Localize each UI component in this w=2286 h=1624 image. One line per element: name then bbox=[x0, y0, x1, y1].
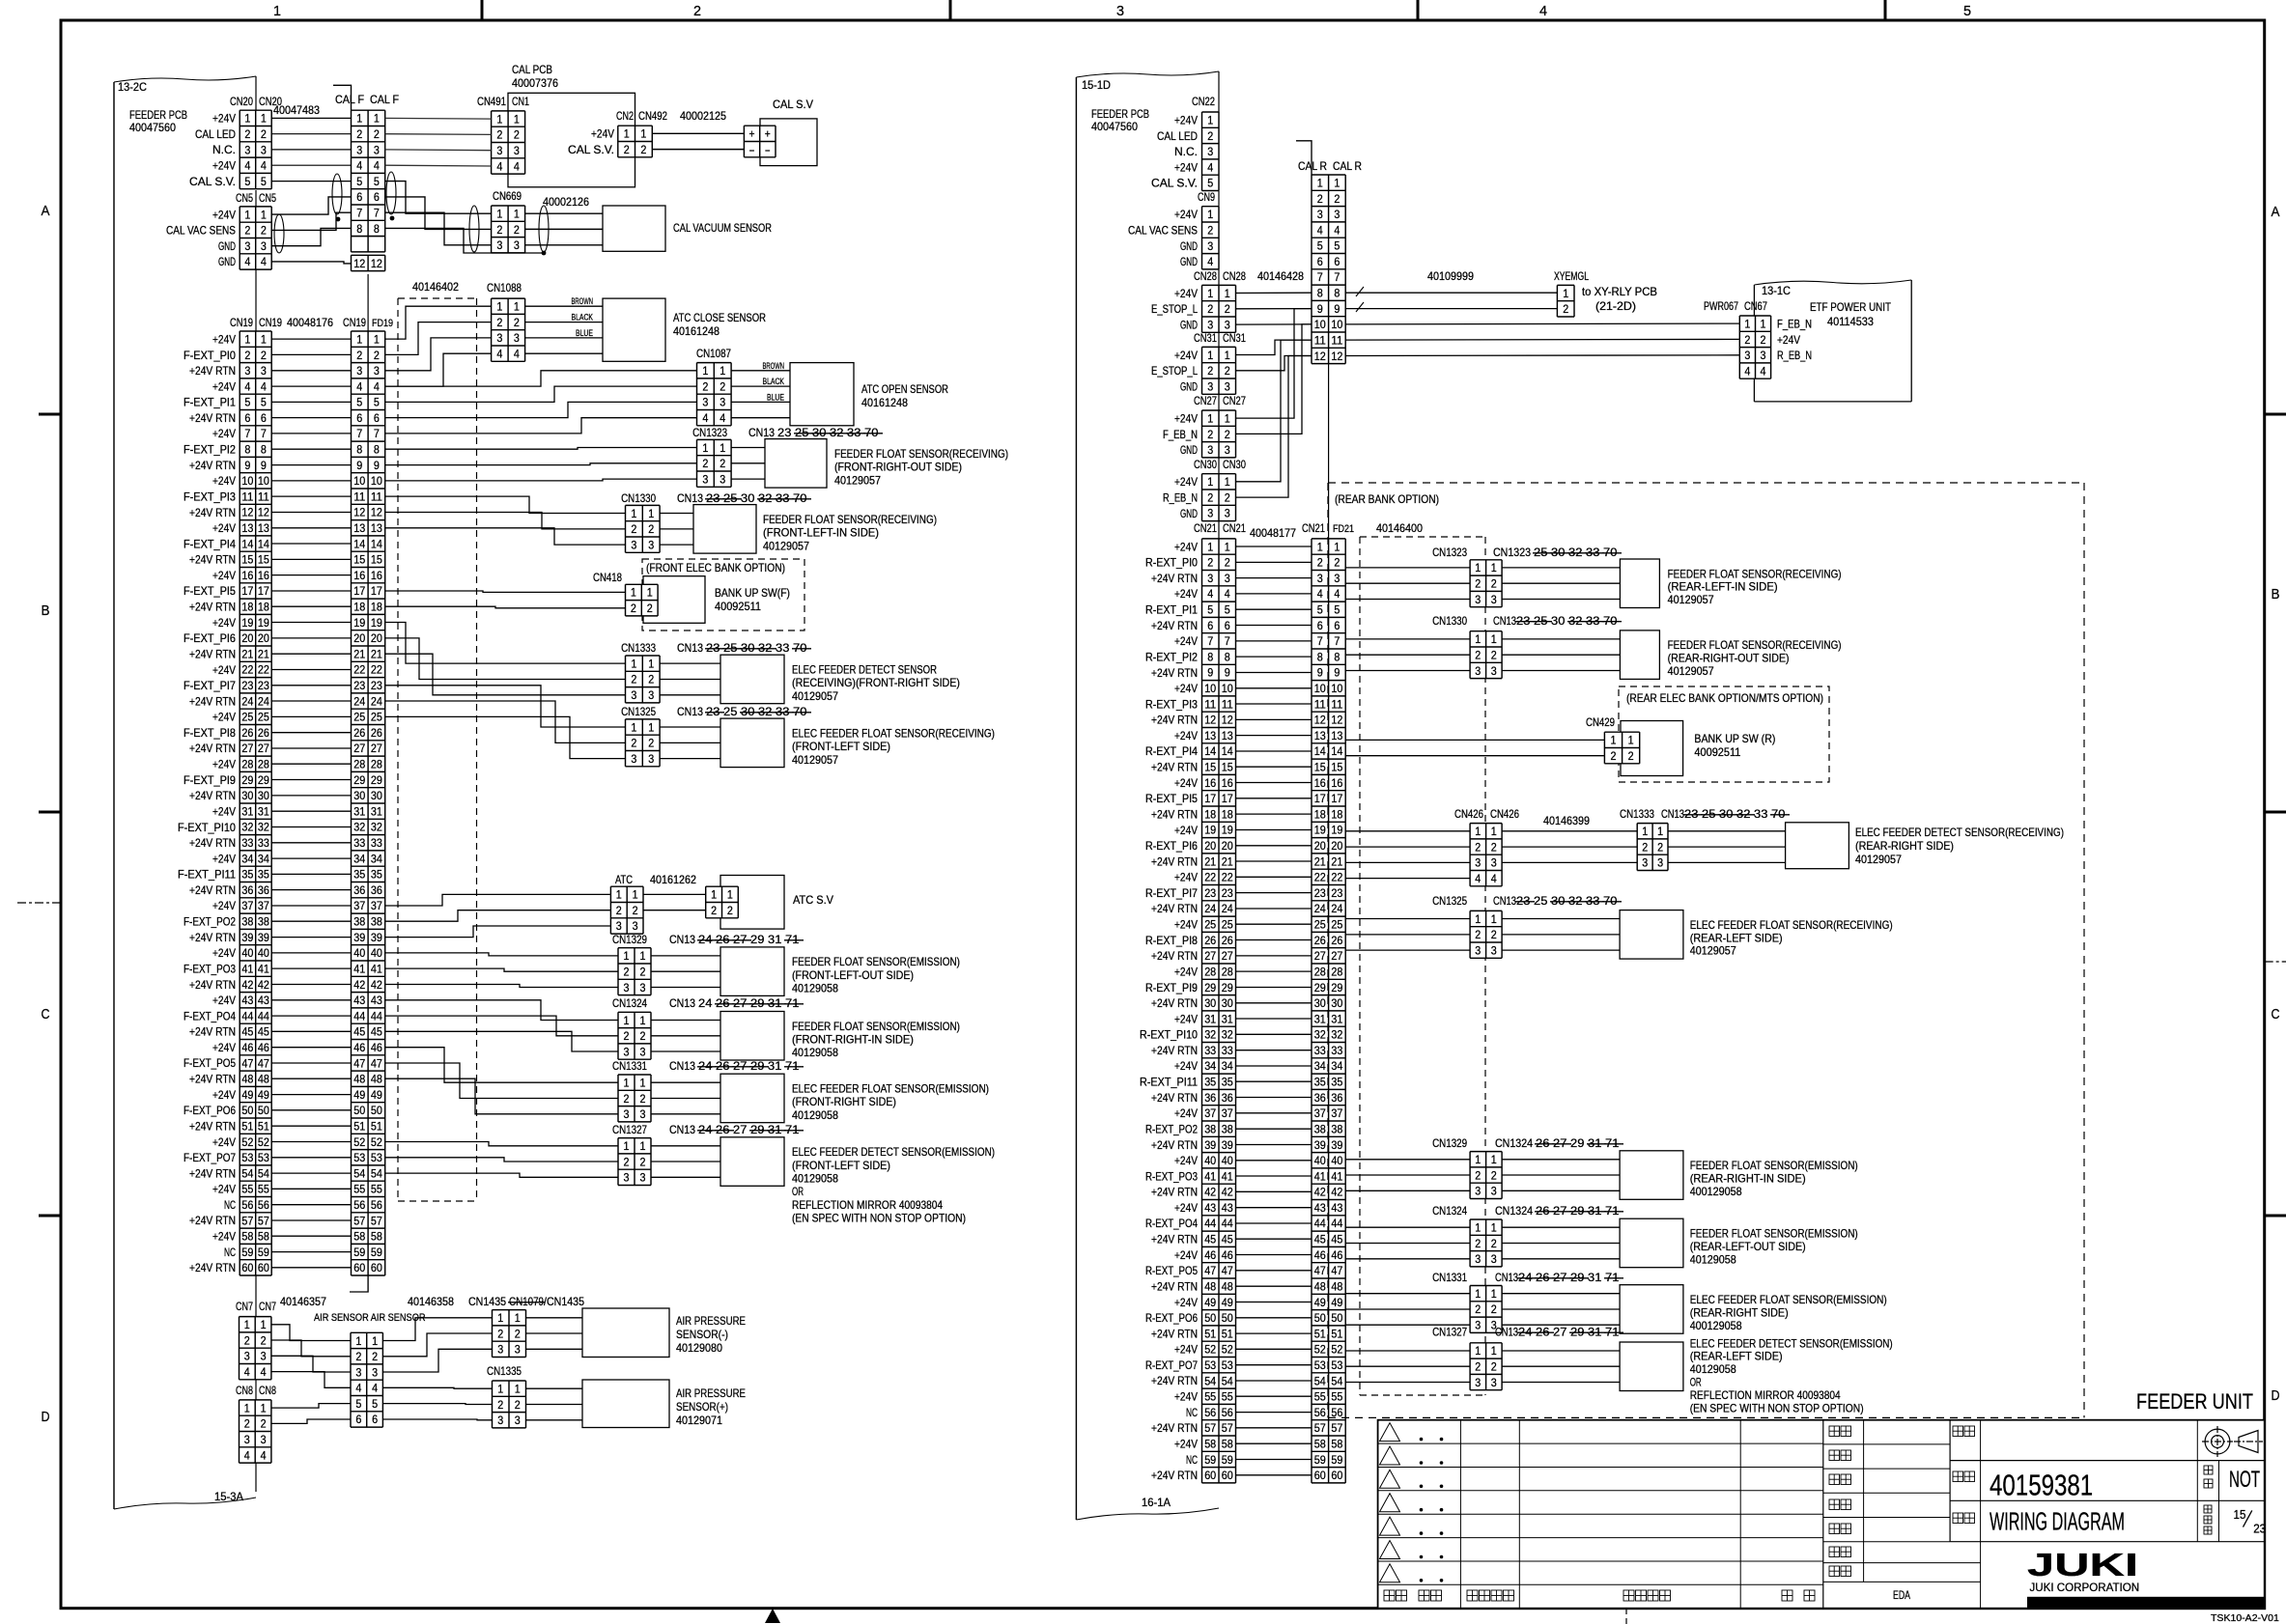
svg-text:FEEDER FLOAT SENSOR(RECEIVING): FEEDER FLOAT SENSOR(RECEIVING) bbox=[834, 447, 1008, 461]
svg-text:71: 71 bbox=[785, 1059, 803, 1073]
svg-text:40047560: 40047560 bbox=[1091, 120, 1138, 133]
connector CN9 pin table bbox=[1202, 207, 1220, 269]
connector CN1325 pin table bbox=[626, 719, 661, 767]
svg-text:31: 31 bbox=[371, 804, 382, 818]
svg-text:+24V: +24V bbox=[1174, 540, 1198, 553]
svg-text:2: 2 bbox=[1744, 333, 1750, 347]
connector CN1323 pin table bbox=[1470, 560, 1502, 607]
svg-text:39: 39 bbox=[1204, 1138, 1216, 1152]
svg-text:29: 29 bbox=[750, 1059, 768, 1073]
wires FD21 to CN426 bbox=[1345, 830, 1470, 832]
svg-text:1: 1 bbox=[1475, 1287, 1481, 1301]
svg-text:5: 5 bbox=[372, 1397, 378, 1411]
page cell bbox=[2204, 1505, 2212, 1513]
svg-text:40129058: 40129058 bbox=[792, 1046, 838, 1059]
svg-text:1: 1 bbox=[374, 332, 380, 346]
ATC S.V small pin table bbox=[706, 886, 739, 918]
svg-text:40109999: 40109999 bbox=[1427, 269, 1474, 283]
svg-text:11: 11 bbox=[353, 490, 365, 503]
svg-text:42: 42 bbox=[371, 978, 382, 992]
svg-text:E_STOP_L: E_STOP_L bbox=[1151, 364, 1198, 378]
svg-text:1: 1 bbox=[640, 1014, 646, 1027]
svg-text:1: 1 bbox=[720, 364, 725, 378]
svg-text:+24V RTN: +24V RTN bbox=[189, 648, 236, 661]
svg-text:CN1323: CN1323 bbox=[692, 426, 727, 439]
svg-text:GND: GND bbox=[1180, 239, 1198, 253]
svg-text:1: 1 bbox=[624, 1139, 630, 1153]
svg-text:3: 3 bbox=[1334, 208, 1340, 221]
svg-text:/CN1435: /CN1435 bbox=[544, 1295, 584, 1308]
svg-text:32: 32 bbox=[258, 821, 269, 834]
connector CN20 pin table bbox=[240, 110, 271, 189]
svg-text:49: 49 bbox=[1314, 1296, 1326, 1309]
svg-text:3: 3 bbox=[1207, 507, 1213, 520]
svg-text:F-EXT_PI5: F-EXT_PI5 bbox=[183, 584, 236, 598]
svg-text:3: 3 bbox=[1317, 208, 1323, 221]
svg-text:NC: NC bbox=[224, 1198, 236, 1212]
svg-text:44: 44 bbox=[241, 1009, 253, 1022]
svg-text:+24V RTN: +24V RTN bbox=[189, 1166, 236, 1180]
svg-text:3: 3 bbox=[720, 472, 725, 486]
svg-text:+24V RTN: +24V RTN bbox=[189, 1214, 236, 1227]
bottom center fold mark bbox=[765, 1609, 780, 1623]
svg-text:15: 15 bbox=[241, 553, 253, 567]
svg-text:11: 11 bbox=[1331, 697, 1342, 711]
svg-text:+24V: +24V bbox=[212, 474, 236, 488]
svg-text:1: 1 bbox=[244, 1401, 250, 1414]
svg-text:40: 40 bbox=[353, 946, 365, 960]
svg-text:38: 38 bbox=[1204, 1123, 1216, 1136]
svg-text:F-EXT_PI8: F-EXT_PI8 bbox=[183, 726, 236, 740]
svg-text:27: 27 bbox=[1553, 1204, 1570, 1218]
svg-text:(REAR-RIGHT SIDE): (REAR-RIGHT SIDE) bbox=[1690, 1305, 1789, 1319]
svg-text:-: - bbox=[765, 143, 771, 156]
svg-text:15: 15 bbox=[371, 553, 382, 567]
svg-text:1: 1 bbox=[1491, 825, 1497, 838]
svg-text:7: 7 bbox=[374, 207, 380, 220]
svg-text:42: 42 bbox=[1222, 1186, 1233, 1199]
svg-text:26: 26 bbox=[371, 726, 382, 740]
wires CN1087 to ATC open sensor bbox=[731, 370, 790, 372]
svg-text:CN28: CN28 bbox=[1223, 269, 1246, 283]
svg-text:+24V RTN: +24V RTN bbox=[189, 789, 236, 802]
connector CN7 pin table bbox=[240, 1317, 271, 1380]
svg-text:32: 32 bbox=[371, 821, 382, 834]
CN1333 sensor box bbox=[720, 655, 784, 704]
svg-text:FEEDER FLOAT SENSOR(EMISSION): FEEDER FLOAT SENSOR(EMISSION) bbox=[792, 1020, 960, 1033]
svg-text:18: 18 bbox=[1314, 807, 1326, 821]
svg-text:+24V: +24V bbox=[1174, 1106, 1198, 1120]
svg-text:CAL F: CAL F bbox=[370, 93, 399, 106]
svg-text:FEEDER FLOAT SENSOR(EMISSION): FEEDER FLOAT SENSOR(EMISSION) bbox=[1690, 1227, 1858, 1241]
svg-text:GND: GND bbox=[1180, 255, 1198, 268]
svg-text:CN1330: CN1330 bbox=[621, 491, 656, 505]
svg-text:4: 4 bbox=[1317, 223, 1323, 237]
svg-text:41: 41 bbox=[371, 962, 382, 975]
ETF POWER UNIT box bbox=[1753, 285, 1755, 402]
svg-text:3: 3 bbox=[1475, 1319, 1481, 1332]
svg-text:BLUE: BLUE bbox=[576, 328, 593, 338]
svg-text:+24V RTN: +24V RTN bbox=[1151, 1421, 1198, 1435]
svg-text:40161262: 40161262 bbox=[650, 873, 696, 886]
svg-text:3: 3 bbox=[244, 239, 250, 253]
svg-text:FEEDER UNIT: FEEDER UNIT bbox=[2136, 1389, 2253, 1414]
svg-text:2: 2 bbox=[1642, 840, 1648, 854]
svg-text:2: 2 bbox=[1317, 556, 1323, 570]
svg-text:2: 2 bbox=[1475, 1360, 1481, 1374]
svg-text:42: 42 bbox=[1331, 1186, 1342, 1199]
svg-text:17: 17 bbox=[353, 584, 365, 598]
svg-text:25: 25 bbox=[723, 491, 741, 505]
svg-text:11: 11 bbox=[1314, 333, 1326, 347]
svg-text:35: 35 bbox=[1331, 1076, 1342, 1089]
svg-text:6: 6 bbox=[1334, 255, 1340, 268]
svg-text:27: 27 bbox=[733, 1059, 750, 1073]
connector CN669 pin table bbox=[492, 206, 525, 253]
svg-text:33: 33 bbox=[258, 836, 269, 850]
svg-text:3: 3 bbox=[633, 919, 638, 933]
svg-text:55: 55 bbox=[241, 1183, 253, 1196]
svg-text:54: 54 bbox=[371, 1166, 382, 1180]
svg-text:58: 58 bbox=[353, 1230, 365, 1244]
svg-text:6: 6 bbox=[1334, 619, 1340, 632]
svg-text:AIR SENSOR AIR SENSOR: AIR SENSOR AIR SENSOR bbox=[314, 1312, 426, 1324]
svg-text:27: 27 bbox=[258, 742, 269, 755]
svg-text:8: 8 bbox=[261, 443, 267, 457]
svg-text:+24V RTN: +24V RTN bbox=[189, 459, 236, 472]
svg-text:3: 3 bbox=[1642, 856, 1648, 870]
svg-text:1: 1 bbox=[355, 1334, 361, 1348]
svg-text:25: 25 bbox=[353, 711, 365, 724]
svg-text:3: 3 bbox=[1491, 664, 1497, 678]
svg-text:24: 24 bbox=[1314, 902, 1326, 915]
svg-text:22: 22 bbox=[241, 663, 253, 677]
svg-text:22: 22 bbox=[1222, 871, 1233, 884]
wires CN1327 bbox=[1345, 1350, 1470, 1352]
connector CN1088 pin table bbox=[492, 298, 525, 361]
wires CN1329 to sensor box bbox=[651, 955, 720, 957]
svg-text:2: 2 bbox=[261, 349, 267, 362]
wires FD19 to CN1330 bbox=[385, 496, 626, 513]
svg-text:18: 18 bbox=[241, 601, 253, 614]
svg-text:58: 58 bbox=[1331, 1438, 1342, 1451]
svg-text:+24V RTN: +24V RTN bbox=[1151, 1374, 1198, 1387]
svg-text:70: 70 bbox=[1771, 807, 1789, 821]
svg-text:44: 44 bbox=[1331, 1217, 1342, 1230]
svg-text:50: 50 bbox=[1204, 1311, 1216, 1325]
CAL F divider extension to CN19 table bbox=[367, 274, 369, 331]
svg-text:40114533: 40114533 bbox=[1827, 315, 1874, 328]
svg-text:47: 47 bbox=[371, 1056, 382, 1070]
svg-text:31: 31 bbox=[768, 1059, 785, 1073]
svg-text:6: 6 bbox=[1317, 255, 1323, 268]
svg-text:28: 28 bbox=[258, 758, 269, 771]
wires FD19 to CN1325 bbox=[385, 686, 626, 727]
svg-text:WIRING DIAGRAM: WIRING DIAGRAM bbox=[1990, 1507, 2125, 1536]
svg-text:3: 3 bbox=[1207, 145, 1213, 158]
connector CN28 pin table bbox=[1202, 285, 1236, 332]
svg-text:60: 60 bbox=[1222, 1469, 1233, 1482]
svg-text:55: 55 bbox=[1222, 1390, 1233, 1404]
wires FD19 to CN1087 bbox=[385, 371, 697, 386]
svg-text:26: 26 bbox=[1536, 1136, 1553, 1150]
svg-text:8: 8 bbox=[1317, 650, 1323, 663]
svg-text:10: 10 bbox=[371, 474, 382, 488]
svg-text:6: 6 bbox=[374, 411, 380, 425]
svg-text:3: 3 bbox=[702, 396, 708, 409]
svg-text:3: 3 bbox=[1657, 856, 1663, 870]
svg-text:2: 2 bbox=[514, 128, 520, 142]
svg-text:13: 13 bbox=[353, 521, 365, 535]
svg-text:24: 24 bbox=[698, 1123, 716, 1136]
svg-text:1: 1 bbox=[633, 888, 638, 902]
svg-text:16: 16 bbox=[1314, 776, 1326, 790]
svg-text:+24V: +24V bbox=[1174, 1438, 1198, 1451]
svg-text:59: 59 bbox=[241, 1246, 253, 1259]
svg-text:NC: NC bbox=[1186, 1406, 1198, 1419]
svg-text:GND: GND bbox=[1180, 443, 1198, 457]
svg-text:F-EXT_PI0: F-EXT_PI0 bbox=[183, 349, 236, 362]
svg-text:46: 46 bbox=[241, 1041, 253, 1054]
svg-text:2: 2 bbox=[497, 1327, 503, 1340]
svg-text:31: 31 bbox=[1314, 1012, 1326, 1025]
svg-text:2: 2 bbox=[244, 1333, 250, 1347]
svg-text:CN20: CN20 bbox=[230, 95, 253, 108]
svg-text:B: B bbox=[42, 602, 50, 619]
svg-text:56: 56 bbox=[241, 1198, 253, 1212]
svg-text:5: 5 bbox=[1334, 239, 1340, 253]
svg-text:60: 60 bbox=[1314, 1469, 1326, 1482]
svg-text:2: 2 bbox=[616, 904, 622, 917]
svg-text:+24V RTN: +24V RTN bbox=[1151, 1327, 1198, 1340]
svg-text:2: 2 bbox=[1475, 1237, 1481, 1250]
connector CN21/FD21 mid pin table bbox=[1312, 539, 1345, 1483]
svg-text:40129058: 40129058 bbox=[792, 1172, 838, 1186]
svg-text:BANK UP SW (R): BANK UP SW (R) bbox=[1694, 732, 1775, 745]
svg-text:2: 2 bbox=[1207, 428, 1213, 441]
wires CN1330 bbox=[1345, 638, 1470, 640]
svg-text:40: 40 bbox=[1204, 1154, 1216, 1167]
svg-text:+: + bbox=[749, 127, 755, 141]
wires CN1323 to sensor box bbox=[731, 447, 765, 449]
svg-text:25: 25 bbox=[1204, 918, 1216, 932]
svg-text:R-EXT_PI2: R-EXT_PI2 bbox=[1145, 650, 1198, 663]
svg-text:3: 3 bbox=[631, 538, 636, 551]
svg-text:35: 35 bbox=[1222, 1076, 1233, 1089]
svg-text:3: 3 bbox=[514, 331, 520, 345]
svg-text:25: 25 bbox=[723, 705, 741, 718]
svg-text:8: 8 bbox=[356, 443, 362, 457]
svg-text:32: 32 bbox=[1568, 546, 1586, 559]
svg-text:2: 2 bbox=[1207, 302, 1213, 316]
svg-text:BLACK: BLACK bbox=[572, 313, 594, 322]
svg-text:33: 33 bbox=[371, 836, 382, 850]
svg-text:40: 40 bbox=[1331, 1154, 1342, 1167]
svg-text:3: 3 bbox=[640, 1045, 646, 1058]
svg-text:+24V RTN: +24V RTN bbox=[1151, 1233, 1198, 1246]
svg-text:25: 25 bbox=[258, 711, 269, 724]
svg-text:4: 4 bbox=[374, 379, 380, 393]
svg-text:1: 1 bbox=[1744, 317, 1750, 330]
svg-text:23: 23 bbox=[1331, 886, 1342, 900]
svg-text:3: 3 bbox=[720, 396, 725, 409]
svg-text:51: 51 bbox=[241, 1120, 253, 1134]
svg-text:40146358: 40146358 bbox=[408, 1295, 454, 1308]
svg-text:23: 23 bbox=[706, 491, 723, 505]
svg-text:OR: OR bbox=[1690, 1376, 1702, 1389]
svg-text:3: 3 bbox=[1761, 349, 1766, 362]
svg-text:12: 12 bbox=[1314, 714, 1326, 727]
svg-text:1: 1 bbox=[648, 720, 654, 734]
svg-text:(REAR ELEC BANK OPTION/MTS OPT: (REAR ELEC BANK OPTION/MTS OPTION) bbox=[1626, 691, 1823, 705]
svg-text:2: 2 bbox=[1475, 840, 1481, 854]
svg-text:17: 17 bbox=[1314, 792, 1326, 805]
svg-text:36: 36 bbox=[258, 883, 269, 897]
svg-text:58: 58 bbox=[241, 1230, 253, 1244]
svg-text:CN1327: CN1327 bbox=[612, 1123, 647, 1136]
svg-text:35: 35 bbox=[258, 868, 269, 882]
svg-text:CAL PCB: CAL PCB bbox=[512, 63, 552, 76]
svg-text:12: 12 bbox=[1222, 714, 1233, 727]
ATC S.V box bbox=[720, 876, 784, 930]
svg-text:13: 13 bbox=[1331, 729, 1342, 742]
wires FD19 to ATC bbox=[385, 894, 611, 906]
svg-text:F-EXT_PO4: F-EXT_PO4 bbox=[183, 1009, 236, 1022]
svg-text:70: 70 bbox=[1603, 894, 1621, 908]
wires CN30 to CAL R bbox=[1236, 340, 1312, 482]
svg-text:5: 5 bbox=[261, 175, 267, 188]
svg-text:1: 1 bbox=[244, 332, 250, 346]
svg-text:+24V RTN: +24V RTN bbox=[189, 506, 236, 519]
wires CN1324 bbox=[1345, 1226, 1470, 1228]
svg-text:5: 5 bbox=[1207, 177, 1213, 190]
svg-text:3: 3 bbox=[1475, 1185, 1481, 1198]
svg-text:3: 3 bbox=[631, 688, 636, 702]
svg-text:R-EXT_PI7: R-EXT_PI7 bbox=[1145, 886, 1198, 900]
svg-text:14: 14 bbox=[1204, 744, 1216, 758]
svg-text:20: 20 bbox=[258, 631, 269, 645]
svg-text:40129057: 40129057 bbox=[834, 473, 881, 487]
svg-text:16-1A: 16-1A bbox=[1142, 1496, 1171, 1509]
svg-text:54: 54 bbox=[1204, 1374, 1216, 1387]
wires CN8 to air sensor table bbox=[271, 1404, 351, 1409]
svg-text:71: 71 bbox=[785, 996, 803, 1010]
svg-text:10: 10 bbox=[1331, 318, 1342, 331]
svg-text:(EN SPEC WITH NON STOP OPTION): (EN SPEC WITH NON STOP OPTION) bbox=[1690, 1401, 1864, 1414]
svg-text:R-EXT_PI5: R-EXT_PI5 bbox=[1145, 792, 1198, 805]
svg-text:9: 9 bbox=[244, 459, 250, 472]
svg-text:1: 1 bbox=[624, 127, 630, 141]
svg-text:32: 32 bbox=[1204, 1028, 1216, 1042]
svg-text:21: 21 bbox=[1331, 854, 1342, 868]
svg-text:2: 2 bbox=[1491, 928, 1497, 941]
svg-text:+24V: +24V bbox=[212, 569, 236, 582]
svg-text:R-EXT_PI8: R-EXT_PI8 bbox=[1145, 934, 1198, 947]
svg-text:B: B bbox=[2272, 586, 2280, 602]
svg-text:2: 2 bbox=[261, 1417, 267, 1431]
svg-text:47: 47 bbox=[241, 1056, 253, 1070]
svg-text:56: 56 bbox=[371, 1198, 382, 1212]
svg-text:2: 2 bbox=[261, 224, 267, 238]
svg-text:15: 15 bbox=[1331, 761, 1342, 774]
svg-text:45: 45 bbox=[371, 1025, 382, 1039]
svg-text:+24V: +24V bbox=[1174, 776, 1198, 790]
svg-text:57: 57 bbox=[371, 1214, 382, 1227]
svg-text:2: 2 bbox=[631, 602, 636, 615]
part number block bbox=[2196, 1420, 2198, 1542]
svg-text:+24V: +24V bbox=[1174, 475, 1198, 489]
svg-text:4: 4 bbox=[1761, 364, 1766, 378]
svg-text:47: 47 bbox=[1222, 1264, 1233, 1277]
svg-text:33: 33 bbox=[1331, 1044, 1342, 1057]
svg-text:38: 38 bbox=[1331, 1123, 1342, 1136]
svg-text:17: 17 bbox=[241, 584, 253, 598]
svg-text:1: 1 bbox=[1475, 825, 1481, 838]
svg-text:42: 42 bbox=[353, 978, 365, 992]
wires air table to CN1335 bbox=[382, 1386, 492, 1389]
svg-text:1: 1 bbox=[496, 300, 502, 314]
svg-text:NC: NC bbox=[224, 1246, 236, 1259]
svg-text:40: 40 bbox=[371, 946, 382, 960]
svg-text:3: 3 bbox=[624, 981, 630, 994]
svg-text:10: 10 bbox=[258, 474, 269, 488]
svg-text:R-EXT_PI11: R-EXT_PI11 bbox=[1140, 1076, 1198, 1089]
svg-text:3: 3 bbox=[372, 1365, 378, 1379]
svg-text:+24V: +24V bbox=[1174, 349, 1198, 362]
svg-text:30: 30 bbox=[258, 789, 269, 802]
svg-text:CN67: CN67 bbox=[1744, 299, 1767, 313]
svg-text:CN1324: CN1324 bbox=[612, 996, 647, 1010]
svg-text:3: 3 bbox=[702, 472, 708, 486]
svg-text:33: 33 bbox=[1586, 614, 1603, 628]
svg-text:CN31: CN31 bbox=[1223, 331, 1246, 345]
svg-text:CN5: CN5 bbox=[236, 191, 253, 205]
svg-text:33: 33 bbox=[1204, 1044, 1216, 1057]
svg-text:1: 1 bbox=[374, 112, 380, 126]
svg-text:400129058: 400129058 bbox=[1690, 1185, 1742, 1198]
svg-text:31: 31 bbox=[768, 1123, 785, 1136]
svg-text:34: 34 bbox=[258, 852, 269, 865]
svg-text:19: 19 bbox=[1204, 824, 1216, 837]
svg-text:FEEDER FLOAT SENSOR(RECEIVING): FEEDER FLOAT SENSOR(RECEIVING) bbox=[763, 513, 937, 526]
svg-text:51: 51 bbox=[1204, 1327, 1216, 1340]
svg-text:3: 3 bbox=[1207, 318, 1213, 331]
connector CN5 pin table bbox=[240, 207, 271, 269]
svg-text:3: 3 bbox=[244, 143, 250, 156]
svg-text:(FRONT-LEFT SIDE): (FRONT-LEFT SIDE) bbox=[792, 1159, 890, 1172]
CN1324 sensor box bbox=[1620, 1218, 1683, 1268]
svg-text:37: 37 bbox=[371, 899, 382, 912]
svg-text:2: 2 bbox=[374, 127, 380, 141]
svg-text:25: 25 bbox=[1534, 614, 1551, 628]
svg-text:3: 3 bbox=[1207, 379, 1213, 393]
svg-text:29: 29 bbox=[1314, 981, 1326, 994]
svg-text:12: 12 bbox=[241, 506, 253, 519]
svg-text:2: 2 bbox=[497, 1398, 503, 1412]
svg-text:33: 33 bbox=[776, 641, 793, 655]
svg-text:47: 47 bbox=[258, 1056, 269, 1070]
revision header labels bbox=[1384, 1590, 1395, 1601]
svg-text:1: 1 bbox=[647, 586, 653, 600]
svg-text:CN1333: CN1333 bbox=[1620, 807, 1654, 821]
svg-text:25: 25 bbox=[1534, 546, 1551, 559]
svg-text:17: 17 bbox=[1204, 792, 1216, 805]
svg-text:37: 37 bbox=[1331, 1106, 1342, 1120]
svg-text:21: 21 bbox=[258, 647, 269, 660]
svg-text:+24V: +24V bbox=[591, 127, 614, 141]
svg-text:CN1329: CN1329 bbox=[1432, 1136, 1467, 1150]
svg-text:2: 2 bbox=[624, 1155, 630, 1168]
